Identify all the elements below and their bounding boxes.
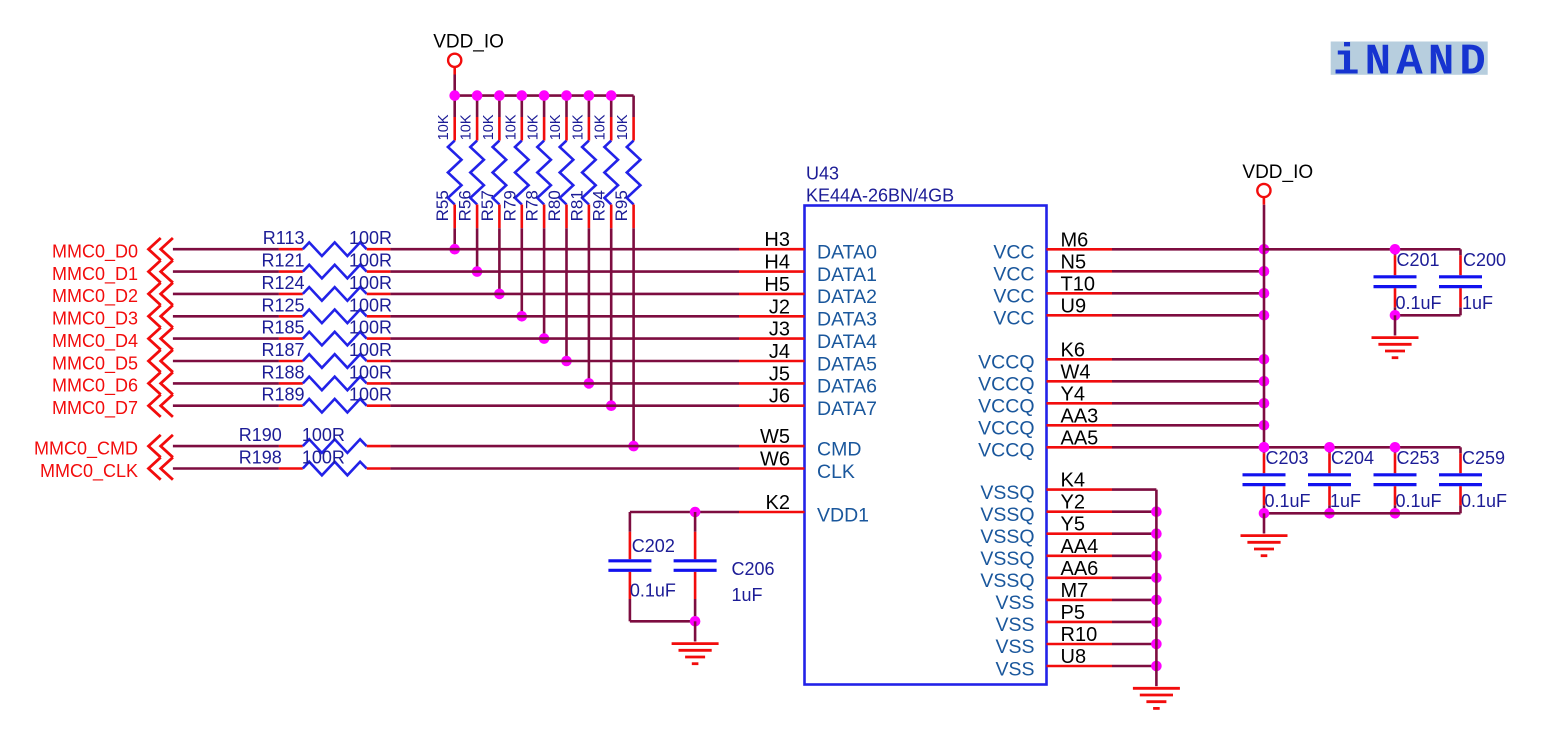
junction R95 to signal net [628, 441, 639, 452]
U43 pin W6 CLK [739, 449, 855, 483]
capacitor C200 1uF [1439, 249, 1506, 315]
wire pull-up bus (VDD_IO) [455, 94, 634, 97]
svg-text:DATA6: DATA6 [817, 376, 877, 398]
wire VSSQ pin AA4 to ground rail [1112, 554, 1156, 557]
svg-text:MMC0_D5: MMC0_D5 [52, 353, 138, 374]
junction Y5 on ground rail [1151, 528, 1162, 539]
svg-text:W6: W6 [760, 449, 790, 471]
wire MMC0_D3 (resistor to U43) [390, 315, 739, 318]
wire MMC0_D2 (resistor to U43) [390, 293, 739, 296]
wire VCCQ pin Y4 to VDD_IO bus [1112, 402, 1264, 405]
wire R81 down to net [588, 228, 591, 383]
svg-text:R95: R95 [612, 190, 631, 221]
off-page connector MMC0_D5 [52, 350, 173, 375]
wire MMC0_D7 (resistor to U43) [390, 404, 739, 407]
svg-text:R198: R198 [239, 448, 282, 468]
svg-text:VCCQ: VCCQ [978, 352, 1034, 374]
svg-text:C204: C204 [1331, 448, 1374, 468]
svg-text:R55: R55 [433, 190, 452, 221]
svg-text:1uF: 1uF [732, 585, 763, 605]
svg-text:CLK: CLK [817, 461, 855, 483]
resistor R189 100R [261, 385, 392, 413]
svg-text:VCC: VCC [993, 264, 1034, 286]
svg-text:C206: C206 [732, 559, 775, 579]
IC U43 KE44A-26BN/4GB [805, 164, 1047, 685]
svg-text:R188: R188 [261, 362, 304, 382]
wire VSS ground rail vertical [1155, 490, 1158, 666]
U43 pin M7 VSS [995, 580, 1112, 614]
wire VCC pin U9 to VDD_IO bus [1112, 314, 1264, 317]
junction R80 on pull-up bus [561, 90, 572, 101]
junction C204 top [1324, 442, 1335, 453]
junction R57 on pull-up bus [494, 90, 505, 101]
svg-text:100R: 100R [349, 340, 392, 360]
wire R80 down to net [565, 228, 568, 361]
resistor R57 10K pull-up [478, 96, 506, 229]
junction AA6 on ground rail [1151, 573, 1162, 584]
ground (C201/C200) [1372, 315, 1419, 357]
junction R81 on pull-up bus [584, 90, 595, 101]
capacitor C206 1uF [674, 512, 775, 621]
svg-text:10K: 10K [503, 114, 519, 140]
svg-text:U8: U8 [1061, 646, 1087, 668]
svg-text:VSSQ: VSSQ [980, 570, 1034, 592]
wire R55 down to net [453, 228, 456, 249]
svg-text:VSSQ: VSSQ [980, 526, 1034, 548]
svg-text:C200: C200 [1463, 250, 1506, 270]
junction K6 on VDD_IO bus [1259, 354, 1270, 365]
U43 pin R10 VSS [995, 624, 1112, 658]
svg-text:VCCQ: VCCQ [978, 396, 1034, 418]
wire MMC0_CMD (connector to resistor) [173, 445, 279, 448]
svg-text:M7: M7 [1061, 580, 1089, 602]
wire MMC0_D6 (connector to resistor) [173, 382, 279, 385]
svg-text:0.1uF: 0.1uF [1396, 293, 1442, 313]
svg-text:R113: R113 [263, 228, 305, 248]
U43 pin AA3 VCCQ [978, 405, 1112, 439]
wire VDD_IO down to pull-up bus [453, 75, 456, 96]
svg-text:AA3: AA3 [1061, 405, 1099, 427]
svg-text:W4: W4 [1061, 361, 1091, 383]
U43 pin Y4 VCCQ [978, 383, 1112, 417]
wire MMC0_D0 (resistor to U43) [390, 248, 739, 251]
junction C201 top [1390, 244, 1401, 255]
svg-text:VSS: VSS [995, 636, 1034, 658]
svg-text:100R: 100R [302, 448, 345, 468]
svg-text:100R: 100R [349, 251, 392, 271]
wire VCCQ pin AA3 to VDD_IO bus [1112, 424, 1264, 427]
junction R94 to signal net [606, 400, 617, 411]
U43 pin AA6 VSSQ [980, 558, 1112, 592]
wire VSSQ pin AA6 to ground rail [1112, 576, 1156, 579]
off-page connector MMC0_D3 [52, 305, 173, 330]
junction R81 to signal net [584, 378, 595, 389]
svg-text:C253: C253 [1397, 448, 1440, 468]
svg-text:R124: R124 [261, 273, 304, 293]
wire R56 down to net [476, 228, 479, 271]
junction R78 to signal net [539, 333, 550, 344]
junction R78 on pull-up bus [539, 90, 550, 101]
U43 pin K6 VCCQ [978, 339, 1112, 373]
U43 pin U9 VCC [993, 295, 1112, 329]
junction M6 on VDD_IO bus [1259, 244, 1270, 255]
svg-text:VDD_IO: VDD_IO [1242, 162, 1313, 183]
svg-text:CMD: CMD [817, 438, 861, 460]
wire VSSQ pin K4 to ground rail [1112, 488, 1156, 491]
svg-text:U9: U9 [1061, 295, 1087, 317]
junction R79 to signal net [517, 311, 528, 322]
wire VCC pin N5 to VDD_IO bus [1112, 270, 1264, 273]
junction C204 bottom [1324, 508, 1335, 519]
svg-text:MMC0_D4: MMC0_D4 [52, 331, 138, 352]
svg-text:VDD_IO: VDD_IO [433, 32, 504, 53]
junction Y4 on VDD_IO bus [1259, 398, 1270, 409]
U43 pin W4 VCCQ [978, 361, 1112, 395]
svg-text:T10: T10 [1061, 273, 1095, 295]
svg-text:R190: R190 [239, 425, 282, 445]
svg-text:J6: J6 [769, 386, 790, 408]
svg-text:10K: 10K [459, 114, 475, 140]
wire VDD1 (K2) net [695, 511, 739, 514]
svg-text:DATA3: DATA3 [817, 309, 877, 331]
svg-text:R80: R80 [545, 190, 564, 221]
svg-text:MMC0_D7: MMC0_D7 [52, 398, 138, 419]
U43 pin Y5 VSSQ [980, 514, 1112, 548]
off-page connector MMC0_D0 [52, 238, 173, 263]
svg-text:R94: R94 [590, 190, 609, 221]
U43 pin U8 VSS [995, 646, 1112, 680]
junction AA5 / bank / VDD_IO bus [1259, 442, 1270, 453]
svg-text:J5: J5 [769, 363, 790, 385]
junction R80 to signal net [561, 356, 572, 367]
wire VSS pin R10 to ground rail [1112, 643, 1156, 646]
wire MMC0_D4 (connector to resistor) [173, 337, 279, 340]
wire MMC0_D1 (resistor to U43) [390, 270, 739, 273]
junction R79 on pull-up bus [517, 90, 528, 101]
wire VSS pin P5 to ground rail [1112, 621, 1156, 624]
U43 pin J4 DATA5 [739, 341, 877, 375]
svg-text:DATA2: DATA2 [817, 286, 877, 308]
svg-text:DATA5: DATA5 [817, 353, 877, 375]
power symbol VDD_IO (decoupling) [1242, 162, 1313, 205]
wire MMC0_D5 (resistor to U43) [390, 360, 739, 363]
U43 pin J5 DATA6 [739, 363, 877, 397]
resistor R188 100R [261, 362, 392, 390]
wire MMC0_CLK (connector to resistor) [173, 467, 279, 470]
wire MMC0_D1 (connector to resistor) [173, 270, 279, 273]
svg-text:J4: J4 [769, 341, 790, 363]
U43 pin M6 VCC [993, 229, 1112, 263]
svg-text:DATA7: DATA7 [817, 398, 877, 420]
ground (C202/C206) [672, 621, 719, 663]
svg-text:0.1uF: 0.1uF [1265, 491, 1311, 511]
svg-text:P5: P5 [1061, 602, 1085, 624]
resistor R125 100R [261, 295, 392, 323]
resistor R124 100R [261, 273, 392, 301]
wire VSS pin M7 to ground rail [1112, 599, 1156, 602]
svg-text:10K: 10K [436, 114, 452, 140]
svg-text:VSS: VSS [995, 614, 1034, 636]
svg-text:1uF: 1uF [1330, 491, 1361, 511]
wire R78 down to net [543, 228, 546, 338]
wire VSSQ pin Y5 to ground rail [1112, 532, 1156, 535]
svg-text:10K: 10K [615, 114, 631, 140]
svg-text:K2: K2 [766, 492, 790, 514]
junction R56 to signal net [472, 266, 483, 277]
svg-text:R81: R81 [567, 190, 586, 221]
svg-text:MMC0_D6: MMC0_D6 [52, 376, 138, 397]
svg-text:R78: R78 [523, 190, 542, 221]
svg-text:H5: H5 [764, 274, 790, 296]
capacitor C204 1uF [1308, 447, 1374, 513]
U43 pin P5 VSS [995, 602, 1112, 636]
junction N5 on VDD_IO bus [1259, 266, 1270, 277]
svg-text:R57: R57 [478, 190, 497, 221]
svg-text:Y5: Y5 [1061, 514, 1085, 536]
svg-text:VSSQ: VSSQ [980, 482, 1034, 504]
wire MMC0_D7 (connector to resistor) [173, 404, 279, 407]
svg-text:MMC0_D3: MMC0_D3 [52, 309, 138, 330]
U43 pin J3 DATA4 [739, 319, 877, 353]
svg-text:100R: 100R [349, 318, 392, 338]
resistor R113 100R [263, 228, 392, 256]
svg-text:0.1uF: 0.1uF [1396, 491, 1442, 511]
wire R94 down to net [610, 228, 613, 406]
wire AA5 row to capacitor bank top bus [1264, 446, 1461, 449]
junction K2 / C206 [690, 507, 701, 518]
svg-text:C203: C203 [1266, 448, 1309, 468]
U43 pin K2 VDD1 [739, 492, 869, 526]
svg-text:AA4: AA4 [1061, 536, 1099, 558]
junction R94 on pull-up bus [606, 90, 617, 101]
svg-text:H4: H4 [764, 252, 790, 274]
U43 pin W5 CMD [739, 426, 861, 460]
resistor R190 100R [239, 425, 391, 453]
svg-text:J3: J3 [769, 319, 790, 341]
svg-text:R185: R185 [261, 318, 304, 338]
resistor R81 10K pull-up [567, 96, 595, 229]
junction U8 on ground rail [1151, 661, 1162, 672]
junction R55 to signal net [449, 244, 460, 255]
svg-text:1uF: 1uF [1462, 293, 1493, 313]
svg-text:iNAND: iNAND [1333, 38, 1491, 88]
svg-text:R56: R56 [456, 190, 475, 221]
svg-text:K6: K6 [1061, 339, 1085, 361]
svg-text:W5: W5 [760, 426, 790, 448]
junction AA5 on VDD_IO bus [1259, 442, 1270, 453]
wire VCCQ pin K6 to VDD_IO bus [1112, 358, 1264, 361]
capacitor C202 0.1uF [608, 532, 676, 601]
junction P5 on ground rail [1151, 617, 1162, 628]
wire MMC0_D0 (connector to resistor) [173, 248, 279, 251]
svg-text:VDD1: VDD1 [817, 504, 869, 526]
svg-text:VCCQ: VCCQ [978, 440, 1034, 462]
svg-text:100R: 100R [349, 228, 392, 248]
svg-text:VCCQ: VCCQ [978, 374, 1034, 396]
svg-text:100R: 100R [349, 295, 392, 315]
svg-text:VSS: VSS [995, 658, 1034, 680]
off-page connector MMC0_CMD [34, 435, 173, 460]
resistor R187 100R [261, 340, 392, 368]
svg-text:100R: 100R [349, 362, 392, 382]
junction C253 bottom [1390, 508, 1401, 519]
svg-text:J2: J2 [769, 296, 790, 318]
svg-text:C202: C202 [632, 536, 675, 556]
svg-text:100R: 100R [349, 273, 392, 293]
U43 pin H5 DATA2 [739, 274, 877, 308]
U43 pin T10 VCC [993, 273, 1112, 307]
wire MMC0_CLK (resistor to U43) [390, 467, 739, 470]
svg-text:VCC: VCC [993, 242, 1034, 264]
resistor R80 10K pull-up [545, 96, 573, 229]
off-page connector MMC0_D4 [52, 328, 173, 352]
svg-text:10K: 10K [593, 114, 609, 140]
wire VDD_IO to C201/C200 [1264, 248, 1395, 251]
wire VCC pin M6 to VDD_IO bus [1112, 248, 1264, 251]
svg-text:VSS: VSS [995, 592, 1034, 614]
junction R10 on ground rail [1151, 639, 1162, 650]
U43 pin H3 DATA0 [739, 229, 877, 263]
wire MMC0_D5 (connector to resistor) [173, 360, 279, 363]
wire capacitor bank bottom bus [1264, 512, 1461, 515]
ground (capacitor bank) [1241, 513, 1288, 555]
svg-text:100R: 100R [302, 425, 345, 445]
U43 pin J6 DATA7 [739, 386, 877, 420]
junction Y2 on ground rail [1151, 506, 1162, 517]
capacitor C259 0.1uF [1439, 447, 1507, 513]
U43 pin Y2 VSSQ [980, 492, 1112, 526]
capacitor C253 0.1uF [1374, 447, 1442, 513]
wire MMC0_D3 (connector to resistor) [173, 315, 279, 318]
wire VDD_IO vertical bus [1263, 205, 1266, 448]
junction C253 top [1390, 442, 1401, 453]
wire VSSQ pin Y2 to ground rail [1112, 510, 1156, 513]
capacitor C203 0.1uF [1243, 447, 1311, 513]
junction M7 on ground rail [1151, 595, 1162, 606]
resistor R94 10K pull-up [590, 96, 618, 229]
U43 pin AA5 VCCQ [978, 427, 1112, 461]
wire VCC pin T10 to VDD_IO bus [1112, 292, 1264, 295]
resistor R79 10K pull-up [500, 96, 528, 229]
svg-text:Y2: Y2 [1061, 492, 1085, 514]
U43 pin K4 VSSQ [980, 470, 1112, 504]
wire VCCQ pin AA5 to VDD_IO bus [1112, 446, 1264, 449]
wire MMC0_D2 (connector to resistor) [173, 293, 279, 296]
resistor R185 100R [261, 318, 392, 346]
svg-text:VCCQ: VCCQ [978, 418, 1034, 440]
junction AA3 on VDD_IO bus [1259, 420, 1270, 431]
U43 pin H4 DATA1 [739, 252, 877, 286]
svg-text:AA5: AA5 [1061, 427, 1099, 449]
capacitor C201 0.1uF [1374, 249, 1442, 315]
svg-text:MMC0_D1: MMC0_D1 [52, 264, 138, 285]
resistor R56 10K pull-up [456, 96, 484, 229]
junction R56 on pull-up bus [472, 90, 483, 101]
junction U9 on VDD_IO bus [1259, 310, 1270, 321]
svg-text:MMC0_CMD: MMC0_CMD [34, 438, 138, 459]
wire VSS pin U8 to ground rail [1112, 665, 1156, 668]
svg-text:AA6: AA6 [1061, 558, 1099, 580]
junction C201 bottom / ground [1390, 310, 1401, 321]
ground (VSS rail) [1133, 666, 1180, 708]
svg-text:10K: 10K [548, 114, 564, 140]
svg-text:C259: C259 [1462, 448, 1505, 468]
resistor R121 100R [261, 251, 392, 279]
svg-text:VCC: VCC [993, 286, 1034, 308]
svg-text:R10: R10 [1061, 624, 1098, 646]
junction R55 on pull-up bus [449, 90, 460, 101]
svg-text:DATA1: DATA1 [817, 264, 877, 286]
svg-text:H3: H3 [764, 229, 790, 251]
iNAND logo [1331, 38, 1491, 88]
svg-text:R125: R125 [261, 295, 304, 315]
power symbol VDD_IO (pull-up bank) [433, 32, 504, 75]
resistor R95 10K pull-up [612, 96, 640, 229]
svg-text:10K: 10K [526, 114, 542, 140]
junction AA4 on ground rail [1151, 551, 1162, 562]
svg-text:10K: 10K [570, 114, 586, 140]
svg-text:KE44A-26BN/4GB: KE44A-26BN/4GB [806, 185, 954, 205]
wire C201/C200 bottom bus [1395, 314, 1461, 317]
wire R79 down to net [520, 228, 523, 316]
svg-text:0.1uF: 0.1uF [630, 581, 676, 601]
svg-text:MMC0_D0: MMC0_D0 [52, 242, 138, 263]
wire MMC0_D6 (resistor to U43) [390, 382, 739, 385]
off-page connector MMC0_D7 [52, 395, 173, 420]
svg-text:K4: K4 [1061, 470, 1085, 492]
off-page connector MMC0_D6 [52, 372, 173, 397]
junction bank bottom / ground [1259, 508, 1270, 519]
junction R57 to signal net [494, 289, 505, 300]
svg-text:R121: R121 [261, 251, 304, 271]
resistor R78 10K pull-up [523, 96, 551, 229]
wire C202 bottom [629, 599, 632, 621]
U43 pin AA4 VSSQ [980, 536, 1112, 570]
wire VCCQ pin W4 to VDD_IO bus [1112, 380, 1264, 383]
svg-text:M6: M6 [1061, 229, 1089, 251]
svg-text:N5: N5 [1061, 251, 1087, 273]
off-page connector MMC0_D2 [52, 283, 173, 308]
U43 pin J2 DATA3 [739, 296, 877, 330]
wire MMC0_D4 (resistor to U43) [390, 337, 739, 340]
svg-text:C201: C201 [1397, 250, 1440, 270]
svg-text:R189: R189 [261, 385, 304, 405]
svg-text:VSSQ: VSSQ [980, 548, 1034, 570]
svg-text:DATA4: DATA4 [817, 331, 877, 353]
off-page connector MMC0_CLK [40, 457, 173, 482]
off-page connector MMC0_D1 [52, 260, 173, 285]
svg-text:10K: 10K [481, 114, 497, 140]
wire MMC0_CMD (resistor to U43) [390, 445, 739, 448]
svg-text:VSSQ: VSSQ [980, 504, 1034, 526]
svg-text:0.1uF: 0.1uF [1461, 491, 1507, 511]
svg-text:R187: R187 [261, 340, 304, 360]
junction C206 bottom / ground [690, 616, 701, 627]
wire R57 down to net [498, 228, 501, 294]
svg-text:DATA0: DATA0 [817, 242, 877, 264]
U43 pin N5 VCC [993, 251, 1112, 285]
svg-text:R79: R79 [500, 190, 519, 221]
junction T10 on VDD_IO bus [1259, 288, 1270, 299]
resistor R55 10K pull-up [433, 96, 461, 229]
resistor R198 100R [239, 448, 391, 476]
svg-text:Y4: Y4 [1061, 383, 1085, 405]
svg-text:VCC: VCC [993, 308, 1034, 330]
svg-text:MMC0_D2: MMC0_D2 [52, 286, 138, 307]
junction W4 on VDD_IO bus [1259, 376, 1270, 387]
svg-text:U43: U43 [806, 164, 839, 184]
wire R95 down to net [632, 228, 635, 446]
